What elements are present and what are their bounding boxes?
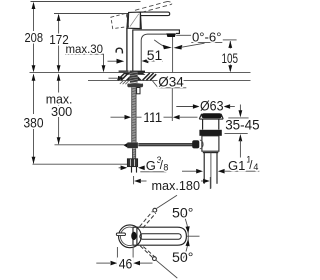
dimension 380 lower line <box>33 75 35 164</box>
drain seal dark band <box>199 130 221 136</box>
arrow down max.30 at deck <box>102 65 106 72</box>
side guide block on rod <box>137 88 140 94</box>
arrow up max300 below deck <box>57 74 61 81</box>
svg-text:208: 208 <box>25 30 44 45</box>
tick line top (208 reference, handle open top) <box>31 1 141 3</box>
arrow up 380 below deck <box>32 74 36 81</box>
dimension 111 <box>111 116 128 118</box>
faucet body top and spout <box>133 30 180 73</box>
deck bottom line <box>88 80 251 82</box>
svg-text:G: G <box>146 158 156 173</box>
arrow up 172 <box>57 14 61 21</box>
arc arrowhead upper <box>186 226 190 233</box>
dashed lever end cap <box>168 1 172 4</box>
drain flange dark top <box>202 113 222 118</box>
svg-text:Ø34: Ø34 <box>158 75 184 90</box>
hook circle lower <box>153 257 157 261</box>
max.30 vertical leader <box>103 54 105 70</box>
svg-text:50°: 50° <box>172 250 194 266</box>
dashed pivot block rotated <box>111 13 128 28</box>
top view: knob oval <box>131 232 136 240</box>
drain locknut <box>202 136 219 151</box>
dashed raised lever lower edge <box>142 4 172 12</box>
0-6 tilt left arrowhead <box>163 45 172 50</box>
G3/8 underline <box>140 171 166 173</box>
max.30 in-deck arrow <box>109 77 121 79</box>
threaded shank through deck <box>130 71 138 83</box>
max.30 underline <box>65 53 104 55</box>
dimension max.300 lower line <box>58 75 60 145</box>
max.180 dimension <box>133 176 135 184</box>
0-6 tilt: vertical outlet line <box>172 37 174 72</box>
hook circle upper <box>153 208 157 212</box>
105 vertical dimension line <box>229 41 231 71</box>
svg-text:46: 46 <box>119 257 133 272</box>
pull rod escutcheon at deck <box>119 70 129 72</box>
svg-text:50°: 50° <box>172 206 194 222</box>
svg-text:380: 380 <box>24 115 44 130</box>
pull rod knob hook <box>116 48 122 53</box>
svg-text:G1: G1 <box>228 158 245 173</box>
arrow down 208 at deck <box>32 65 36 72</box>
drain flange outline <box>199 114 223 119</box>
solid ray upper <box>157 195 178 208</box>
extension line spout outlet down <box>171 88 173 121</box>
rod below clamp <box>132 148 136 158</box>
ball rod knob <box>192 140 199 148</box>
svg-text:max.180: max.180 <box>152 178 201 193</box>
G3/8 arrows at supply nut <box>119 167 123 169</box>
svg-text:105: 105 <box>222 50 239 66</box>
51 underline <box>147 60 164 62</box>
svg-text:Ø63: Ø63 <box>200 98 224 113</box>
0-6 underline <box>191 41 222 43</box>
faucet base seal band <box>130 71 146 73</box>
Ø63 dimension arrows <box>176 106 194 108</box>
0-6 tilt right tail to label <box>181 43 205 47</box>
top view: inner circle arc <box>120 227 132 245</box>
35-45 dimension <box>239 105 241 112</box>
svg-text:0°-6°: 0°-6° <box>192 30 222 45</box>
svg-text:4: 4 <box>253 162 258 172</box>
tick line 380 bottom <box>33 163 128 165</box>
dimension 208 vertical line <box>33 4 35 71</box>
supply connection nut G3/8 <box>127 159 137 167</box>
arrow down max300 <box>57 137 61 144</box>
horizontal linkage rod to drain <box>138 143 192 145</box>
top view: outer body circle <box>119 225 142 248</box>
46 dimension extension lines <box>116 247 118 266</box>
svg-text:35-45: 35-45 <box>225 117 259 132</box>
tick line max300 bottom <box>55 144 128 146</box>
rod clamp tee <box>127 142 137 148</box>
swivel arc <box>183 214 188 258</box>
white text boxes <box>22 31 240 270</box>
dimension 51: right arrow pointing left at inner wall <box>142 59 149 64</box>
handle pivot block solid <box>127 12 141 29</box>
drain body walls <box>202 119 204 130</box>
pull rod vertical <box>126 28 128 70</box>
mounting nut <box>127 83 143 87</box>
Ø34 leader diagonal <box>153 81 159 88</box>
dimension 172 vertical line <box>58 15 60 71</box>
50 degree dashed rays upper <box>140 211 153 226</box>
0-6 tilt right arrowhead <box>174 45 183 50</box>
top view: rod stub left <box>116 233 125 236</box>
0-6 tilt left arc tail <box>154 40 163 46</box>
arc arrowhead lower <box>186 239 190 246</box>
top view: handle bar <box>133 227 186 245</box>
Ø34 underline <box>158 87 187 89</box>
top view: joint line <box>136 227 138 245</box>
deck top line <box>30 72 251 74</box>
dimension 51: left arrow pointing right at rod <box>108 60 118 62</box>
G1 1/4 arrows at tailpipe <box>182 170 197 172</box>
arrow up 208 <box>32 2 36 9</box>
105 top tick <box>223 39 237 41</box>
svg-text:51: 51 <box>147 48 163 63</box>
svg-text:8: 8 <box>163 163 168 173</box>
arrow down 172 at deck <box>57 65 61 72</box>
deck hatch left of shank <box>118 73 129 80</box>
washer hatch below deck left <box>120 81 129 84</box>
46 dimension arrows <box>96 262 110 264</box>
lever handle solid <box>140 12 169 16</box>
aerator black outlet <box>166 33 176 37</box>
0-6 leader to spout <box>176 34 191 36</box>
drain tailpipe <box>203 153 205 184</box>
supply pipe end <box>131 167 133 173</box>
svg-text:max.30: max.30 <box>66 42 104 56</box>
tick line 172 (handle closed top) <box>54 13 128 15</box>
axis line right of capsule <box>187 235 200 237</box>
spout underside left of aerator <box>141 34 166 72</box>
top view: lever slot <box>140 234 181 240</box>
deck hatch right of shank <box>138 76 142 80</box>
ball joint arc <box>200 140 203 149</box>
dashed raised lever upper edge <box>135 1 168 10</box>
threaded rod below nut <box>132 87 137 142</box>
solid ray lower <box>156 260 177 278</box>
50 degree dashed rays lower <box>140 246 152 257</box>
svg-text:300: 300 <box>51 104 72 119</box>
svg-text:111: 111 <box>143 110 162 125</box>
arrow down 380 <box>32 157 36 164</box>
